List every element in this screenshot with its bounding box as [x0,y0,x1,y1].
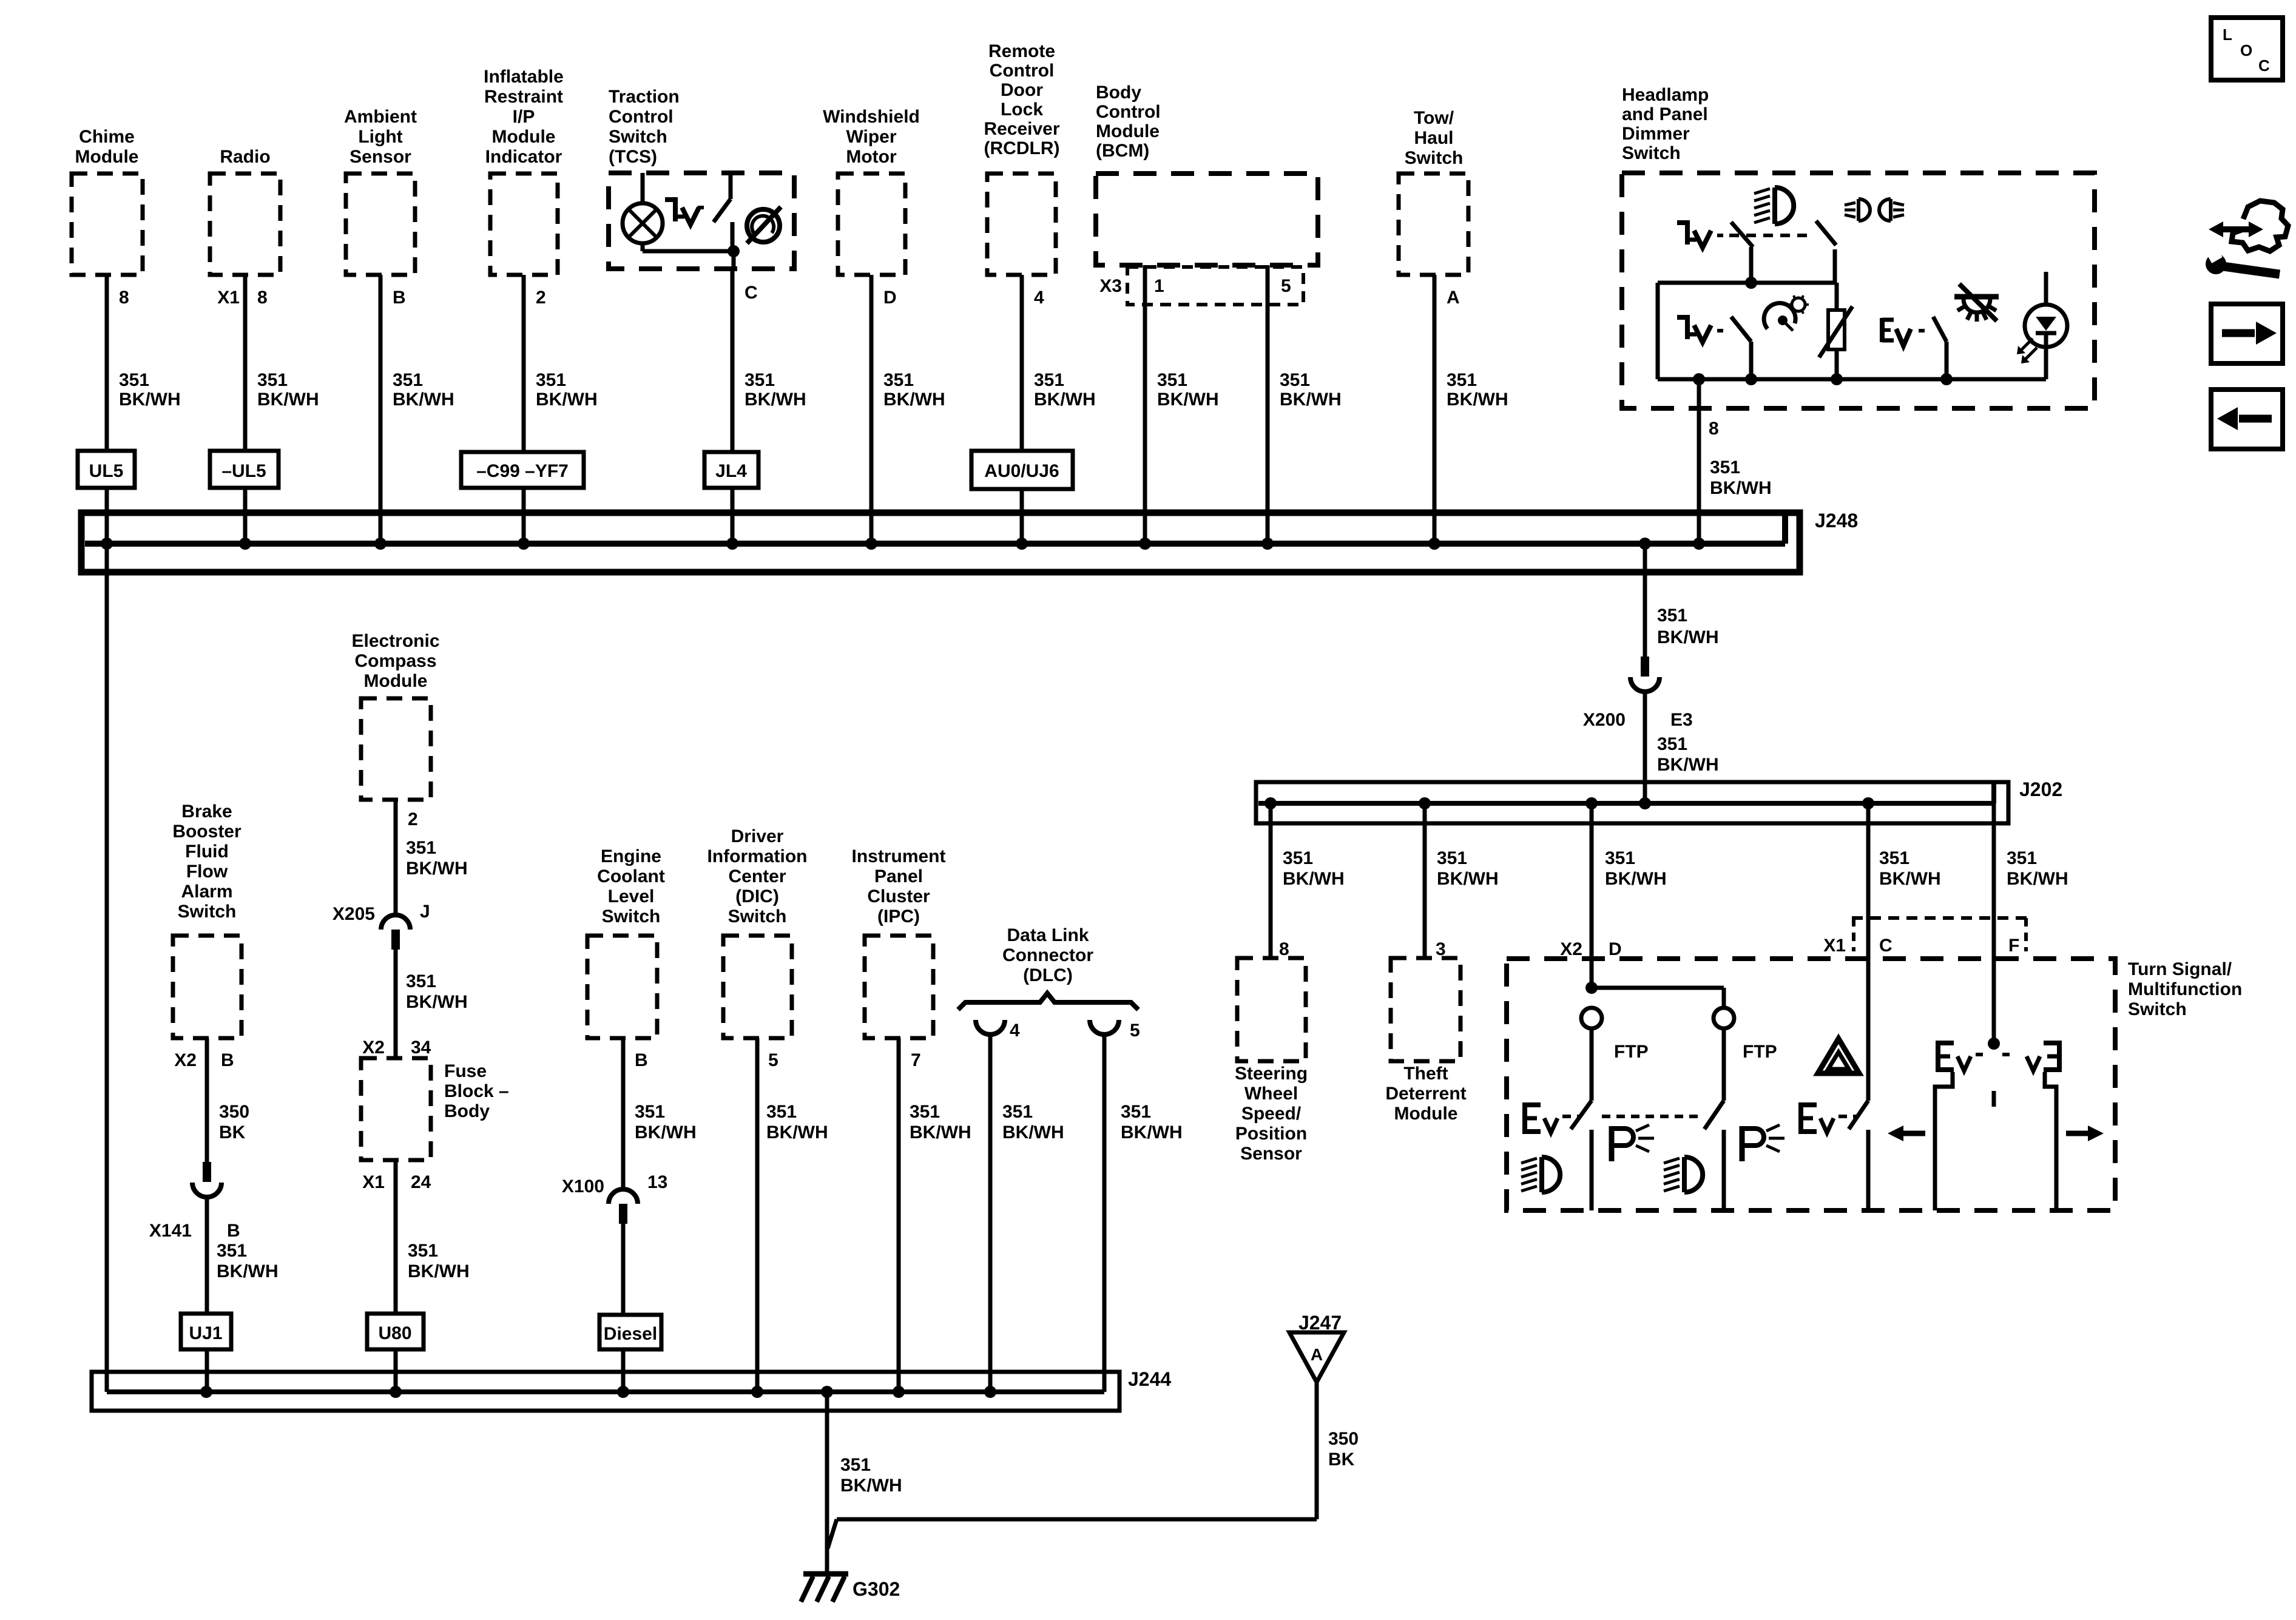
svg-text:351: 351 [1283,848,1313,868]
svg-text:BK/WH: BK/WH [393,390,454,410]
svg-text:351: 351 [1447,370,1477,390]
svg-text:Light: Light [358,127,402,147]
svg-text:351: 351 [406,838,436,858]
svg-text:351: 351 [393,370,423,390]
svg-text:(BCM): (BCM) [1096,141,1149,161]
svg-text:BK: BK [1328,1450,1355,1470]
svg-text:Door: Door [1001,80,1043,100]
svg-text:Radio: Radio [220,147,270,167]
svg-text:C: C [1879,936,1893,956]
svg-text:351: 351 [1121,1102,1151,1122]
svg-text:4: 4 [1010,1021,1020,1041]
svg-text:Module: Module [492,127,556,147]
svg-text:351: 351 [745,370,775,390]
svg-text:34: 34 [411,1038,431,1058]
svg-text:Headlamp: Headlamp [1622,85,1709,105]
svg-text:B: B [635,1050,648,1070]
svg-text:Module: Module [364,671,428,691]
svg-text:B: B [227,1221,240,1241]
svg-text:BK/WH: BK/WH [1657,755,1719,775]
svg-text:Sensor: Sensor [349,147,411,167]
svg-text:X1: X1 [362,1172,385,1192]
svg-text:BK: BK [219,1122,246,1142]
svg-text:BK/WH: BK/WH [408,1261,470,1281]
svg-text:Motor: Motor [846,147,897,167]
svg-text:Flow: Flow [186,862,228,882]
svg-text:X2: X2 [362,1038,385,1058]
svg-text:Dimmer: Dimmer [1622,124,1690,144]
svg-text:Alarm: Alarm [181,882,232,902]
svg-text:BK/WH: BK/WH [635,1122,697,1142]
svg-text:Engine: Engine [601,846,661,866]
svg-text:X1: X1 [1823,936,1846,956]
svg-text:X100: X100 [562,1176,604,1196]
svg-text:Lock: Lock [1001,100,1043,120]
svg-text:UJ1: UJ1 [189,1323,222,1343]
svg-text:BK/WH: BK/WH [883,390,945,410]
svg-text:I/P: I/P [513,107,535,127]
svg-text:351: 351 [2007,848,2037,868]
svg-text:Panel: Panel [874,866,923,886]
svg-text:BK/WH: BK/WH [2007,869,2068,889]
svg-text:J248: J248 [1815,510,1858,532]
svg-text:Fuse: Fuse [444,1061,487,1081]
svg-text:Theft: Theft [1403,1064,1448,1084]
svg-text:BK/WH: BK/WH [745,390,806,410]
svg-text:5: 5 [1130,1021,1140,1041]
svg-text:Body: Body [444,1101,490,1121]
svg-text:Module: Module [1096,121,1160,141]
svg-text:Information: Information [707,846,808,866]
svg-text:BK/WH: BK/WH [1157,390,1219,410]
svg-text:D: D [883,288,897,308]
svg-text:351: 351 [1657,606,1687,626]
svg-text:X1: X1 [217,288,240,308]
svg-text:24: 24 [411,1172,431,1192]
svg-text:Electronic: Electronic [351,631,439,651]
svg-text:Speed/: Speed/ [1241,1104,1302,1124]
svg-text:FTP: FTP [1614,1042,1649,1062]
svg-text:X3: X3 [1099,276,1122,296]
svg-text:–UL5: –UL5 [221,461,266,481]
svg-text:351: 351 [1280,370,1310,390]
svg-text:351: 351 [217,1241,247,1261]
svg-text:Fluid: Fluid [185,842,229,862]
svg-text:BK/WH: BK/WH [840,1476,902,1496]
svg-text:5: 5 [768,1050,778,1070]
svg-text:Windshield: Windshield [823,107,920,127]
svg-text:Level: Level [608,886,655,906]
svg-text:Switch: Switch [178,902,237,922]
svg-text:A: A [1447,288,1460,308]
svg-text:351: 351 [1605,848,1635,868]
svg-text:351: 351 [883,370,914,390]
svg-text:351: 351 [766,1102,797,1122]
svg-text:L: L [2223,25,2232,44]
svg-text:X141: X141 [149,1221,192,1241]
svg-text:BK/WH: BK/WH [1002,1122,1064,1142]
svg-text:Remote: Remote [988,41,1055,61]
svg-text:Switch: Switch [1405,148,1464,168]
svg-text:AU0/UJ6: AU0/UJ6 [984,461,1059,481]
svg-text:U80: U80 [378,1323,411,1343]
svg-text:B: B [393,288,406,308]
svg-text:Diesel: Diesel [604,1324,657,1344]
svg-text:Driver: Driver [731,826,784,846]
svg-text:G302: G302 [853,1578,900,1600]
svg-text:X200: X200 [1583,710,1626,730]
svg-text:351: 351 [1657,734,1687,754]
svg-text:(DIC): (DIC) [735,886,779,906]
svg-text:1: 1 [1154,276,1164,296]
svg-text:Sensor: Sensor [1240,1144,1302,1164]
svg-text:8: 8 [119,288,129,308]
svg-text:Coolant: Coolant [597,866,665,886]
svg-text:(RCDLR): (RCDLR) [984,138,1060,158]
svg-text:Compass: Compass [354,651,436,671]
svg-text:Control: Control [990,61,1055,81]
svg-text:Steering: Steering [1235,1064,1308,1084]
svg-text:BK/WH: BK/WH [536,390,598,410]
svg-text:8: 8 [1709,419,1719,439]
svg-text:C: C [745,283,758,303]
svg-text:Center: Center [728,866,786,886]
svg-text:Multifunction: Multifunction [2128,979,2242,999]
svg-text:JL4: JL4 [715,461,747,481]
svg-text:BK/WH: BK/WH [1437,869,1499,889]
svg-text:351: 351 [536,370,566,390]
svg-text:BK/WH: BK/WH [1034,390,1096,410]
svg-text:Control: Control [609,107,674,127]
svg-text:351: 351 [1002,1102,1033,1122]
svg-text:Instrument: Instrument [851,846,945,866]
svg-text:BK/WH: BK/WH [1283,869,1345,889]
svg-text:351: 351 [910,1102,940,1122]
svg-text:Module: Module [1394,1104,1458,1124]
svg-text:Data Link: Data Link [1007,925,1089,945]
svg-text:Cluster: Cluster [867,886,930,906]
svg-text:Tow/: Tow/ [1414,108,1454,128]
svg-text:Wheel: Wheel [1244,1084,1298,1104]
svg-text:351: 351 [257,370,288,390]
svg-text:8: 8 [1279,939,1289,959]
svg-text:Control: Control [1096,102,1161,122]
svg-text:351: 351 [1157,370,1187,390]
svg-text:Turn Signal/: Turn Signal/ [2128,959,2232,979]
svg-text:Switch: Switch [602,906,661,926]
svg-text:E3: E3 [1670,710,1693,730]
svg-text:(TCS): (TCS) [609,147,657,167]
svg-text:BK/WH: BK/WH [119,390,181,410]
svg-text:BK/WH: BK/WH [1121,1122,1183,1142]
svg-text:and Panel: and Panel [1622,104,1708,124]
svg-text:X2: X2 [174,1050,197,1070]
svg-text:O: O [2240,41,2252,59]
svg-text:Inflatable: Inflatable [484,67,564,87]
svg-text:J: J [420,902,430,922]
svg-text:Restraint: Restraint [484,87,563,107]
svg-text:Module: Module [75,147,139,167]
svg-text:BK/WH: BK/WH [406,859,468,879]
svg-text:351: 351 [406,971,436,991]
svg-text:Switch: Switch [1622,143,1681,163]
svg-text:351: 351 [1879,848,1909,868]
svg-text:BK/WH: BK/WH [1605,869,1667,889]
svg-text:351: 351 [1710,457,1740,478]
svg-text:BK/WH: BK/WH [1710,478,1772,498]
svg-text:BK/WH: BK/WH [406,992,468,1012]
svg-text:351: 351 [1437,848,1467,868]
svg-text:Chime: Chime [79,127,135,147]
svg-text:F: F [2008,936,2019,956]
svg-text:–C99 –YF7: –C99 –YF7 [476,461,569,481]
svg-text:13: 13 [647,1172,667,1192]
svg-text:(IPC): (IPC) [877,906,920,926]
svg-text:A: A [1311,1345,1323,1364]
svg-text:Switch: Switch [728,906,787,926]
svg-text:Indicator: Indicator [485,147,562,167]
svg-text:5: 5 [1281,276,1291,296]
svg-text:8: 8 [257,288,268,308]
svg-text:BK/WH: BK/WH [1280,390,1342,410]
svg-text:BK/WH: BK/WH [910,1122,971,1142]
svg-text:J244: J244 [1128,1368,1171,1390]
svg-text:Traction: Traction [609,87,680,107]
svg-text:UL5: UL5 [89,461,124,481]
svg-text:B: B [221,1050,234,1070]
svg-text:Receiver: Receiver [984,119,1059,139]
svg-text:2: 2 [408,809,418,829]
svg-text:Brake: Brake [181,802,232,822]
svg-text:351: 351 [635,1102,665,1122]
svg-text:Haul: Haul [1414,128,1453,148]
svg-text:Switch: Switch [609,127,667,147]
svg-text:FTP: FTP [1743,1042,1777,1062]
svg-text:351: 351 [840,1455,871,1475]
svg-text:Connector: Connector [1002,945,1093,965]
svg-text:BK/WH: BK/WH [1657,627,1719,647]
svg-text:Position: Position [1235,1124,1307,1144]
svg-text:Switch: Switch [2128,999,2187,1019]
svg-text:BK/WH: BK/WH [217,1261,279,1281]
svg-text:351: 351 [408,1241,438,1261]
svg-text:BK/WH: BK/WH [1879,869,1941,889]
svg-text:2: 2 [536,288,546,308]
svg-text:351: 351 [119,370,149,390]
svg-text:351: 351 [1034,370,1064,390]
svg-text:Wiper: Wiper [846,127,896,147]
svg-text:J202: J202 [2019,778,2062,800]
svg-text:Block –: Block – [444,1081,509,1101]
svg-text:(DLC): (DLC) [1023,965,1073,985]
svg-text:7: 7 [911,1050,921,1070]
svg-text:C: C [2258,56,2270,75]
svg-text:X205: X205 [333,904,375,924]
svg-text:Booster: Booster [172,822,241,842]
svg-text:Ambient: Ambient [344,107,417,127]
svg-text:350: 350 [1328,1429,1359,1449]
svg-text:BK/WH: BK/WH [766,1122,828,1142]
svg-text:BK/WH: BK/WH [257,390,319,410]
svg-text:350: 350 [219,1102,249,1122]
svg-text:BK/WH: BK/WH [1447,390,1508,410]
svg-text:4: 4 [1034,288,1044,308]
svg-text:Body: Body [1096,83,1141,103]
svg-text:Deterrent: Deterrent [1385,1084,1466,1104]
